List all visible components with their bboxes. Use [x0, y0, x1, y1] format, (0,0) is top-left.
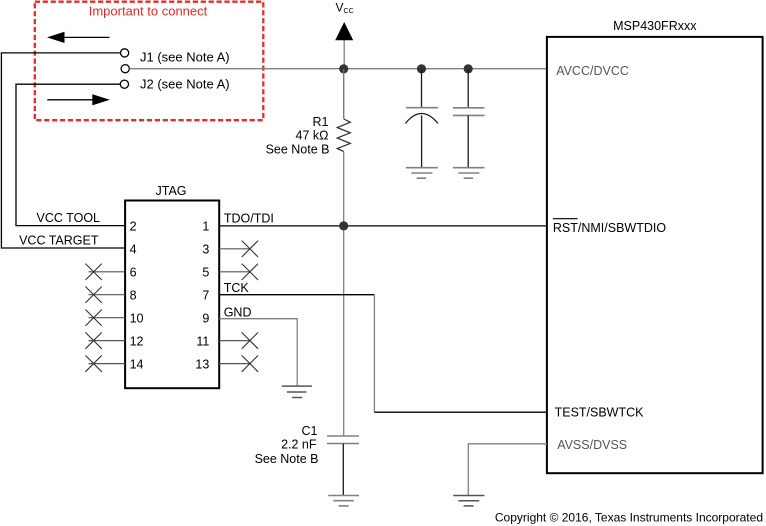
svg-text:Copyright © 2016, Texas Instru: Copyright © 2016, Texas Instruments Inco… [495, 511, 763, 525]
unused pin 6 stub with X [85, 264, 125, 280]
jumper pin center (Vcc rail) [121, 65, 129, 73]
svg-text:GND: GND [224, 306, 252, 320]
svg-text:4: 4 [130, 242, 137, 256]
ground under ceramic cap [453, 168, 485, 179]
svg-text:9: 9 [202, 311, 209, 325]
resistor R1 [337, 119, 350, 152]
svg-text:7: 7 [202, 288, 209, 302]
JTAG right pin numbers [195, 219, 209, 371]
svg-text:10: 10 [130, 311, 144, 325]
svg-text:8: 8 [130, 288, 137, 302]
pin label RST/NMI/SBWTDIO with overline on RST [553, 219, 666, 235]
svg-text:R1: R1 [313, 115, 329, 129]
svg-text:RST/NMI/SBWTDIO: RST/NMI/SBWTDIO [553, 221, 666, 235]
svg-text:14: 14 [130, 357, 144, 371]
svg-text:11: 11 [196, 334, 209, 348]
unused pin 13 stub with X [219, 355, 258, 371]
capacitor C1 [327, 436, 359, 496]
svg-text:3: 3 [202, 242, 209, 256]
Vcc power symbol [335, 22, 353, 69]
svg-text:AVCC/DVCC: AVCC/DVCC [556, 64, 629, 78]
label C1 value [255, 424, 319, 466]
unused pin 14 stub with X [85, 355, 125, 371]
ground symbol for JTAG GND [282, 386, 312, 397]
wire: R1 down to C1 (crosses TCK) [343, 152, 345, 436]
label R1 value [266, 115, 330, 156]
arrow pointing left (remove jumper direction) [47, 32, 110, 43]
svg-text:AVSS/DVSS: AVSS/DVSS [557, 438, 627, 452]
svg-text:See Note B: See Note B [266, 142, 330, 156]
wire: TDO/TDI pin1 to RST/NMI/SBWTDIO [219, 225, 547, 227]
svg-text:6: 6 [130, 265, 137, 279]
node: rail junction at bypass cap 1 [417, 64, 426, 73]
unused pin 12 stub with X [85, 332, 125, 348]
svg-text:JTAG: JTAG [155, 184, 186, 198]
svg-text:Important to connect: Important to connect [89, 3, 208, 18]
svg-text:TEST/SBWTCK: TEST/SBWTCK [555, 406, 645, 420]
svg-text:C1: C1 [302, 424, 318, 438]
wire: GND pin9 to ground [219, 319, 297, 386]
ground under C1 [328, 496, 359, 506]
svg-text:1: 1 [202, 219, 209, 233]
wire: TCK pin7 to TEST/SBWTCK [219, 295, 547, 413]
wire: J2 to VCC TOOL (pin 2) [16, 84, 125, 225]
svg-text:2.2 nF: 2.2 nF [281, 438, 317, 452]
svg-text:TDO/TDI: TDO/TDI [224, 212, 274, 226]
svg-text:J2 (see Note A): J2 (see Note A) [140, 77, 230, 92]
svg-text:MSP430FRxxx: MSP430FRxxx [613, 19, 697, 33]
ground under polarized cap [406, 168, 438, 179]
wire: AVSS/DVSS to ground [468, 444, 547, 496]
wire: J1 to VCC TARGET (pin 4) [1, 53, 125, 248]
svg-text:VCC TARGET: VCC TARGET [19, 234, 99, 248]
unused pin 8 stub with X [85, 287, 125, 303]
svg-text:47 kΩ: 47 kΩ [296, 129, 329, 143]
capacitor: ceramic bypass cap [453, 69, 485, 168]
arrow pointing right (connect direction) [47, 94, 110, 105]
svg-text:VCC TOOL: VCC TOOL [37, 211, 100, 225]
unused pin 11 stub with X [219, 332, 258, 348]
JTAG left pin numbers [130, 219, 144, 371]
svg-text:J1 (see Note A): J1 (see Note A) [140, 50, 230, 65]
node: junction TDO/R1/C1 [339, 221, 348, 230]
jumper pin J2 [120, 80, 128, 88]
wire: Vcc rail from center jumper pin to AVCC/DVCC [129, 68, 547, 70]
JTAG connector body [125, 201, 219, 389]
unused pin 3 stub with X [219, 241, 258, 257]
unused pin 5 stub with X [219, 264, 258, 280]
MSP430FRxxx device body [547, 37, 763, 473]
important-to-connect dashed highlight box [35, 2, 263, 121]
node: rail junction at R1 [339, 64, 348, 73]
node: rail junction at bypass cap 2 [464, 64, 473, 73]
svg-text:See Note B: See Note B [255, 452, 319, 466]
wire: rail junction down to R1 [343, 69, 345, 119]
svg-text:TCK: TCK [224, 281, 250, 295]
svg-text:5: 5 [202, 265, 209, 279]
capacitor: polarized bypass cap [405, 69, 438, 168]
svg-text:12: 12 [130, 334, 144, 348]
ground for AVSS/DVSS [453, 496, 484, 506]
unused pin 10 stub with X [85, 310, 125, 326]
jumper pin J1 [121, 49, 129, 57]
svg-text:13: 13 [195, 357, 209, 371]
svg-text:2: 2 [130, 219, 137, 233]
